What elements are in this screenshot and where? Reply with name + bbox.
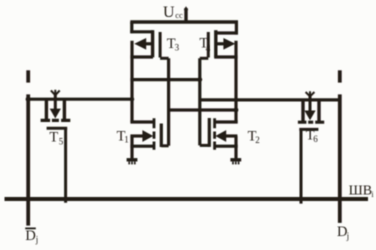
transistor T3 substrate arrow shaft — [145, 42, 152, 45]
svg-text:6: 6 — [313, 134, 318, 144]
transistor T6 right leg — [317, 100, 320, 121]
wire T1 gate stub — [161, 144, 168, 147]
svg-text:cc: cc — [175, 10, 183, 20]
node dot H1 right junction — [197, 77, 202, 82]
svg-text:1: 1 — [124, 134, 129, 144]
svg-text:i: i — [371, 190, 374, 199]
svg-text:4: 4 — [206, 44, 211, 54]
transistor T2 channel (dashed) — [213, 118, 216, 150]
wire T3 gate stub — [160, 57, 169, 60]
bit line Dbar-j upper dash — [26, 70, 30, 82]
wire T4 drain — [216, 31, 238, 34]
wire T2 source — [214, 145, 238, 148]
wire node Q vertical (T4 tie down to T2 drain) — [234, 41, 237, 122]
svg-text:ШВ: ШВ — [349, 184, 372, 199]
svg-text:2: 2 — [255, 135, 260, 145]
transistor T3 substrate arrow head — [134, 38, 146, 50]
Ucc stub tip — [184, 6, 189, 10]
svg-text:D: D — [25, 228, 35, 244]
transistor T6 crown ticks — [306, 91, 315, 96]
transistor T4 substrate arrow shaft — [217, 42, 224, 45]
transistor T4 gate bar — [207, 32, 210, 58]
transistor T1 substrate arrow head — [142, 130, 153, 142]
bit line Dj upper dash — [338, 70, 342, 82]
transistor T4 substrate arrow head — [223, 38, 235, 50]
transistor T2 gate bar — [208, 118, 211, 147]
transistor T6 arrow head down — [304, 111, 315, 121]
transistor T1 substrate arrow shaft — [130, 134, 143, 137]
wire T1 drain — [130, 120, 153, 123]
transistor T3 gate bar — [159, 32, 162, 58]
wire T4 gate stub — [200, 57, 209, 60]
node dot T5 wire / node Qbar junction — [130, 97, 134, 101]
transistor T6 gate bar — [299, 128, 318, 131]
transistor T1 gate bar — [160, 124, 163, 148]
wire rail left drop to T3 drain — [130, 22, 133, 33]
ground T1 bar — [127, 158, 138, 161]
wire cross-couple H1 (Qbar to right gate feed) — [130, 78, 201, 81]
ground T2 bar — [230, 158, 241, 161]
wire node Qbar vertical (T3 tie down to T1 drain) — [130, 41, 133, 122]
Ucc supply stub — [184, 8, 187, 22]
wire T2 gate stub — [200, 144, 210, 147]
bit line Dbar-j main — [26, 94, 30, 225]
wire rail right drop to T4 drain — [235, 22, 238, 35]
transistor T5 crown ticks — [51, 90, 60, 95]
wire T5 horizontal (bit line to node Qbar) — [28, 98, 132, 101]
wire T2 drain — [214, 120, 238, 123]
wire T1 source tie to ground — [130, 136, 133, 158]
wire T3 source — [130, 55, 153, 58]
svg-text:U: U — [163, 4, 175, 21]
transistor T6 left leg — [301, 100, 304, 121]
svg-text:5: 5 — [59, 136, 64, 146]
wire node Q to T6 and bit line (horizontal A) — [200, 98, 340, 101]
transistor T5 gate bar — [47, 127, 68, 130]
label Dbar-j overline — [25, 227, 36, 229]
transistor T6 arrow shaft down — [309, 100, 312, 111]
transistor T5 arrow head down — [50, 109, 61, 119]
wire cross-couple H2 (left feed to right node) — [169, 108, 238, 111]
transistor T5 body stub up — [54, 94, 57, 99]
transistor T5 left leg — [45, 99, 48, 119]
wire T4 source — [214, 55, 237, 58]
wire left gate feed vertical (T3 gate to T1 gate) — [167, 58, 170, 146]
transistor T5 right leg — [63, 99, 66, 119]
wire right gate feed vertical (T4 gate to T2 gate) — [198, 58, 201, 145]
transistor T6 body stub up — [309, 96, 312, 100]
wire T6 gate drop to select line — [300, 129, 303, 203]
transistor T5 channel dashes — [41, 119, 71, 122]
transistor T1 channel (dashed) — [153, 118, 156, 150]
svg-text:3: 3 — [175, 42, 180, 52]
transistor T2 substrate arrow head — [215, 130, 226, 142]
wire T5 gate drop to select line — [64, 128, 67, 203]
node dot H2 right junction — [234, 108, 239, 113]
transistor T2 substrate arrow shaft — [225, 134, 237, 137]
wire T1 source — [130, 145, 153, 148]
svg-text:j: j — [346, 231, 350, 241]
wire T3 drain — [130, 30, 153, 33]
transistor T6 channel dashes — [298, 121, 324, 124]
svg-text:j: j — [35, 235, 39, 245]
power rail Ucc top — [130, 20, 238, 24]
ground T1 hatches — [129, 162, 135, 165]
ground T2 hatches — [233, 162, 239, 165]
transistor T4 channel — [214, 30, 217, 57]
select line SHVi bottom rail — [5, 197, 369, 201]
bit line Dj main — [338, 94, 342, 223]
transistor T3 channel — [151, 30, 154, 57]
transistor T5 arrow shaft down — [54, 99, 57, 109]
wire T2 source tie to ground — [234, 136, 237, 158]
svg-text:T: T — [49, 129, 58, 145]
node dot bitline/T5 junction — [26, 97, 31, 102]
